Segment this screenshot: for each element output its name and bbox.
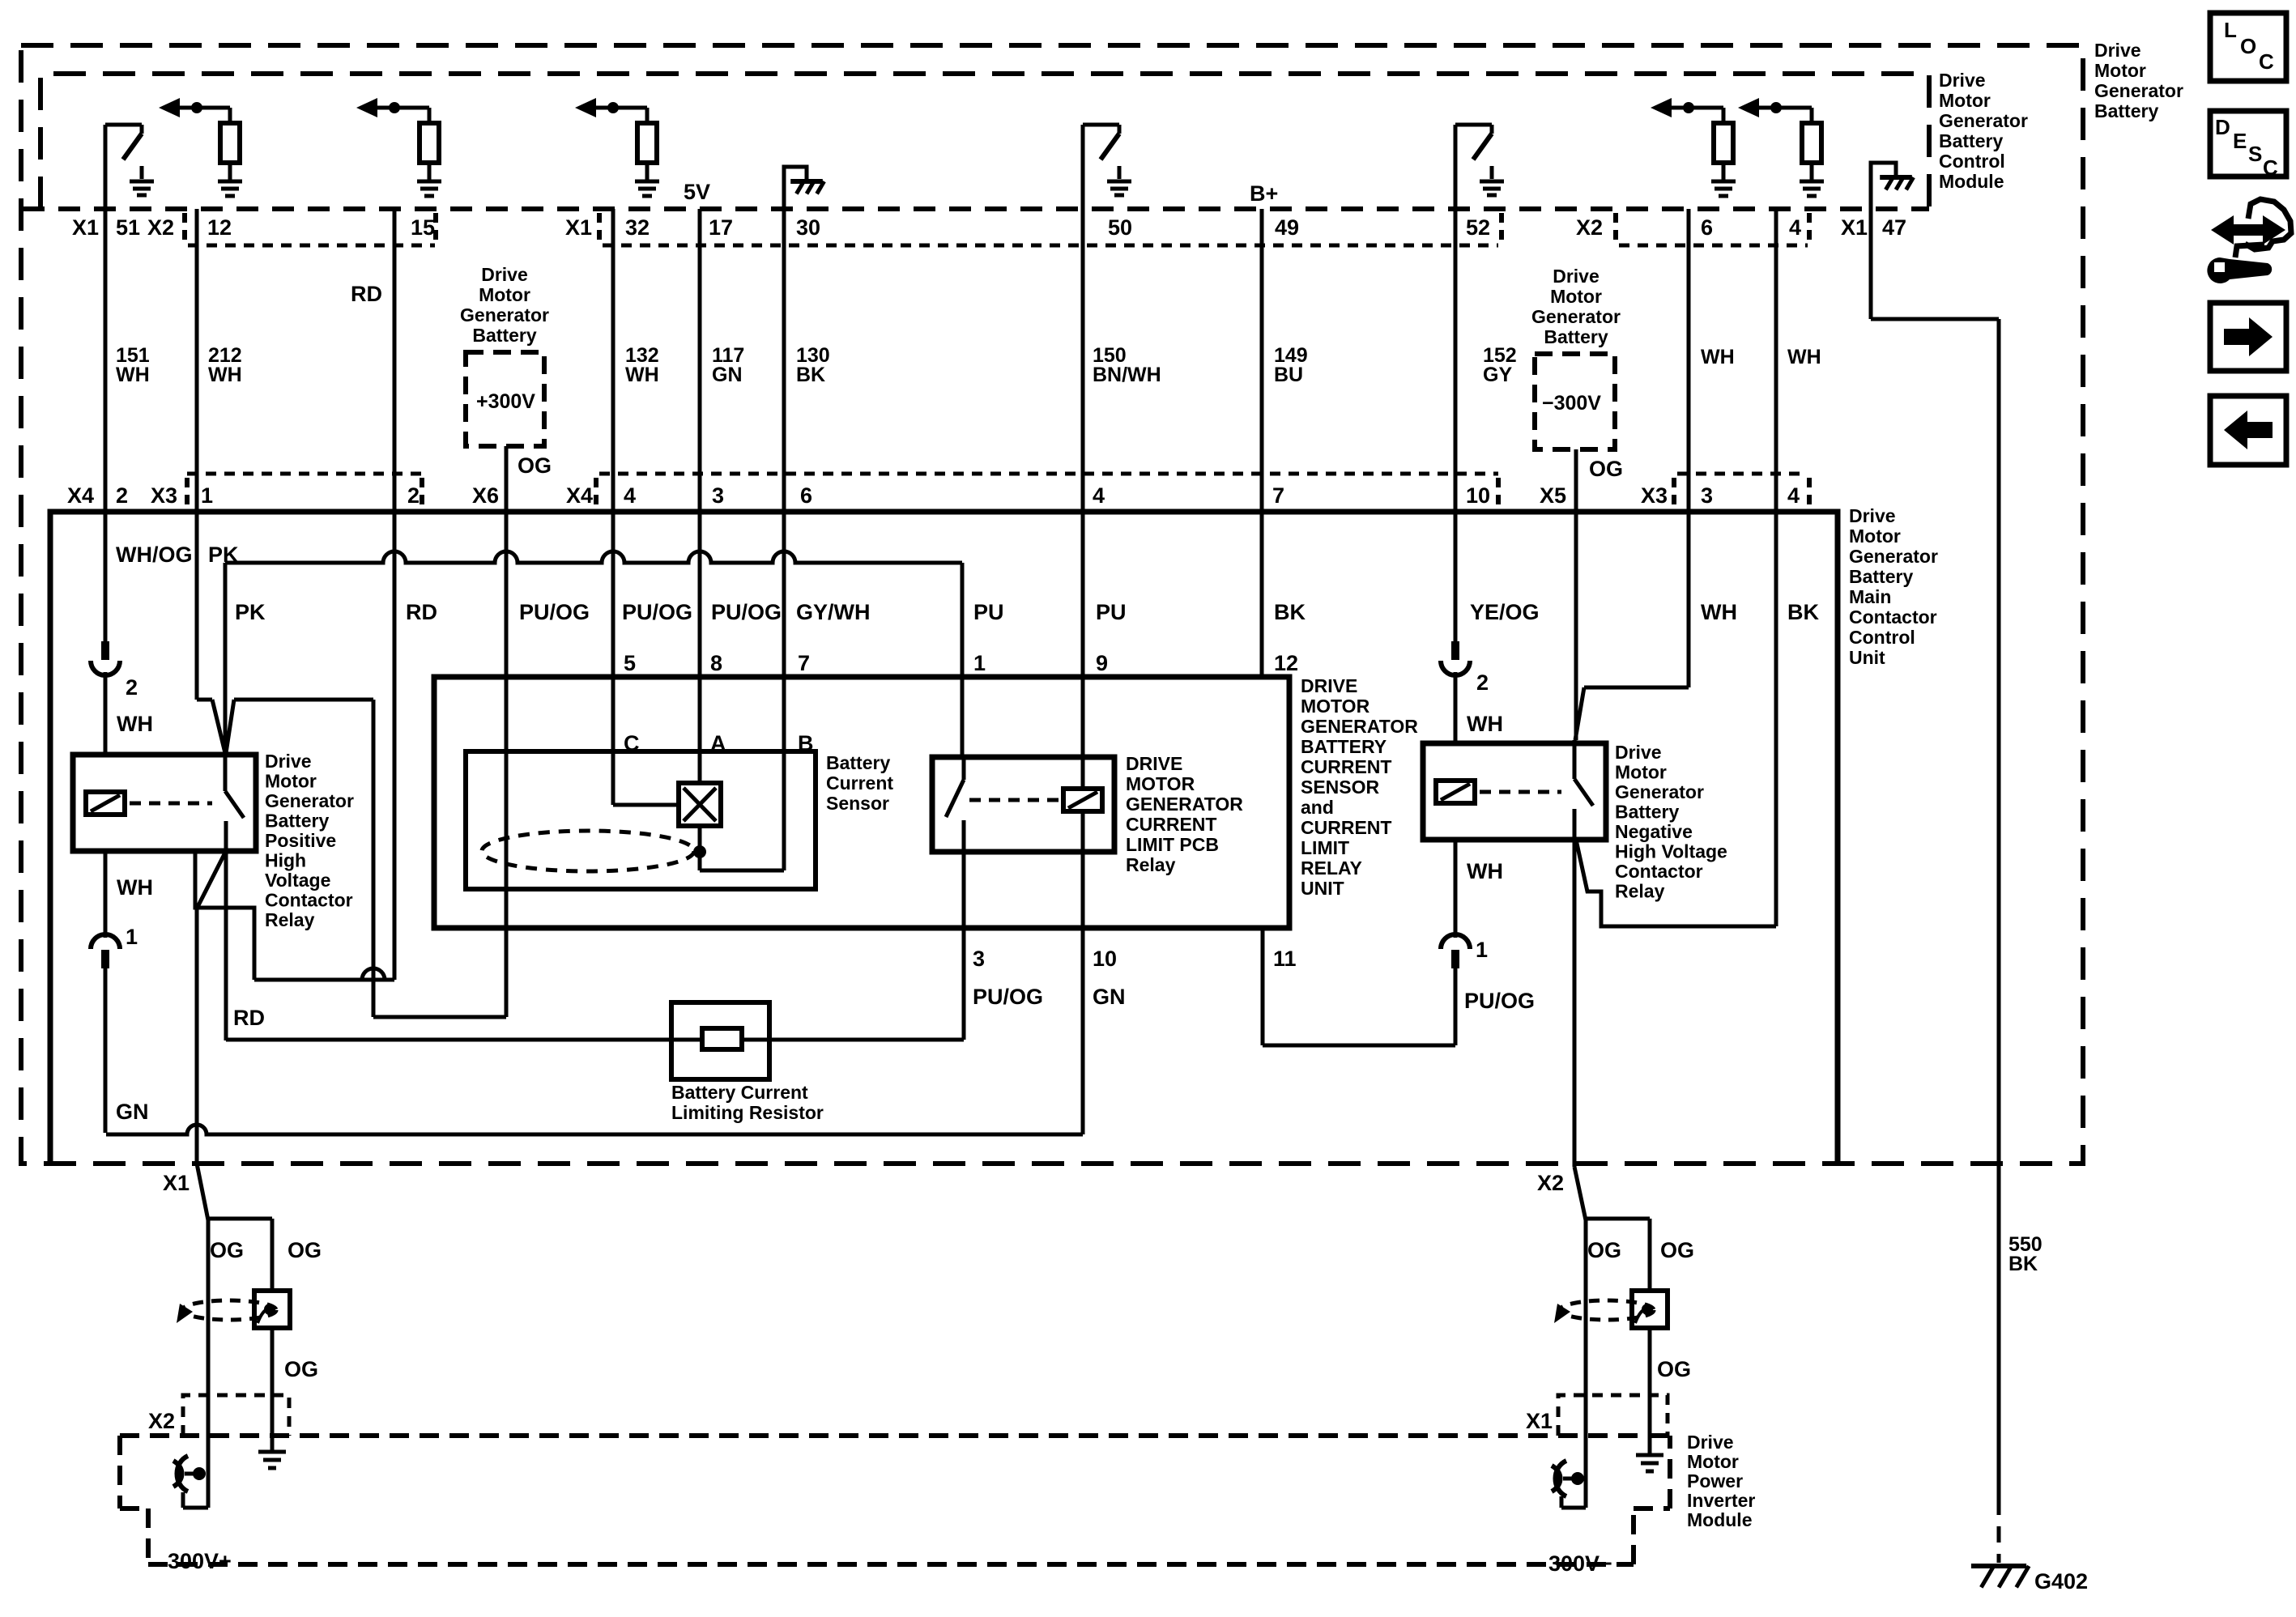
svg-text:X1: X1 bbox=[72, 215, 99, 240]
svg-text:1: 1 bbox=[126, 925, 138, 949]
svg-text:30: 30 bbox=[796, 215, 820, 240]
svg-text:3: 3 bbox=[973, 947, 985, 971]
svg-text:O: O bbox=[2240, 34, 2256, 58]
svg-text:CURRENT: CURRENT bbox=[1126, 814, 1216, 835]
battery +300V wire down through sensor unit bbox=[505, 474, 509, 1017]
chassis ground, pin 30 bbox=[784, 167, 807, 209]
svg-text:Negative: Negative bbox=[1615, 821, 1693, 842]
positive contactor relay box bbox=[73, 755, 256, 851]
icon: hand with double arrow and wrench bbox=[2211, 215, 2285, 245]
svg-text:49: 49 bbox=[1275, 215, 1299, 240]
svg-text:Power: Power bbox=[1687, 1470, 1743, 1491]
svg-text:OG: OG bbox=[284, 1357, 318, 1381]
svg-text:LIMIT PCB: LIMIT PCB bbox=[1126, 834, 1219, 855]
svg-text:Drive: Drive bbox=[1849, 505, 1896, 526]
svg-text:X2: X2 bbox=[1537, 1171, 1564, 1195]
ground G402 bbox=[1971, 1564, 2026, 1568]
svg-text:Control: Control bbox=[1849, 627, 1915, 648]
ground under left OG branch bbox=[258, 1450, 286, 1454]
svg-text:L: L bbox=[2224, 18, 2237, 42]
svg-text:G402: G402 bbox=[2034, 1569, 2088, 1594]
svg-text:10: 10 bbox=[1093, 947, 1117, 971]
svg-text:Inverter: Inverter bbox=[1687, 1490, 1755, 1511]
svg-text:51: 51 bbox=[116, 215, 140, 240]
svg-text:PU/OG: PU/OG bbox=[711, 600, 782, 624]
svg-text:Motor: Motor bbox=[479, 284, 530, 305]
wire X3-3 WH to negative relay switch bbox=[1687, 512, 1691, 687]
wire X4-2 to positive relay coil, WH bbox=[104, 512, 108, 643]
svg-text:−300V: −300V bbox=[1542, 392, 1601, 415]
svg-text:X2: X2 bbox=[148, 1409, 175, 1433]
svg-text:GY: GY bbox=[1483, 364, 1512, 386]
switch to ground, pin 50 bbox=[1081, 125, 1085, 209]
svg-text:Contactor: Contactor bbox=[265, 890, 353, 911]
inline connector 2 on negative coil wire bbox=[1454, 630, 1458, 643]
svg-text:5V: 5V bbox=[684, 180, 710, 204]
svg-text:SENSOR: SENSOR bbox=[1301, 777, 1380, 798]
svg-text:RELAY: RELAY bbox=[1301, 857, 1362, 879]
bottom dotted connector box X1 (right) bbox=[1558, 1395, 1668, 1436]
svg-text:2: 2 bbox=[126, 675, 138, 700]
negative relay output step to BK wire bbox=[1576, 840, 1776, 926]
svg-text:47: 47 bbox=[1882, 215, 1906, 240]
outer dashed box: Drive Motor Generator Battery bbox=[21, 45, 2083, 1164]
svg-text:WH: WH bbox=[116, 364, 150, 386]
svg-text:OG: OG bbox=[1660, 1238, 1694, 1262]
svg-text:Battery: Battery bbox=[265, 811, 329, 832]
PCB relay switch blade bbox=[962, 757, 966, 780]
svg-text:Positive: Positive bbox=[265, 830, 336, 851]
svg-text:X1: X1 bbox=[1841, 215, 1868, 240]
svg-text:D: D bbox=[2215, 115, 2230, 139]
svg-text:Control: Control bbox=[1939, 151, 2005, 172]
svg-text:C: C bbox=[2259, 49, 2274, 74]
svg-text:1: 1 bbox=[973, 651, 986, 675]
long PU wire from relay switch to PCB relay pin 1, with hop-overs bbox=[225, 551, 962, 563]
OG fuse branch right bbox=[1648, 1219, 1652, 1292]
inline connector 1 on negative coil wire bbox=[1454, 933, 1458, 938]
svg-text:Voltage: Voltage bbox=[265, 870, 330, 891]
battery current sensor box bbox=[466, 751, 816, 889]
svg-text:PU/OG: PU/OG bbox=[622, 600, 692, 624]
svg-text:Contactor: Contactor bbox=[1849, 606, 1937, 628]
dashed wire segment to G402 bbox=[1997, 1499, 2001, 1563]
svg-text:17: 17 bbox=[709, 215, 733, 240]
svg-text:Battery: Battery bbox=[1544, 326, 1608, 347]
svg-text:Generator: Generator bbox=[1849, 546, 1938, 567]
svg-text:X1: X1 bbox=[1526, 1409, 1553, 1433]
arrow + pull-up resistor, pin 12 bbox=[159, 98, 180, 117]
svg-text:7: 7 bbox=[1272, 483, 1284, 508]
svg-text:Drive: Drive bbox=[1939, 70, 1986, 91]
connector row 1 dotted box bottoms bbox=[188, 244, 435, 248]
svg-text:RD: RD bbox=[233, 1006, 265, 1030]
negative relay switch blade bbox=[1573, 740, 1577, 779]
svg-text:PU: PU bbox=[973, 600, 1004, 624]
svg-text:X4: X4 bbox=[67, 483, 94, 508]
svg-text:LIMIT: LIMIT bbox=[1301, 837, 1349, 858]
svg-text:CURRENT: CURRENT bbox=[1301, 817, 1391, 838]
svg-text:YE/OG: YE/OG bbox=[1470, 600, 1540, 624]
svg-text:Battery: Battery bbox=[2094, 100, 2158, 121]
sensor element X box bbox=[611, 751, 616, 805]
svg-text:X3: X3 bbox=[151, 483, 177, 508]
OG fuse branch left bbox=[270, 1219, 275, 1291]
svg-text:BK: BK bbox=[1787, 600, 1819, 624]
svg-text:8: 8 bbox=[710, 651, 722, 675]
svg-text:Drive: Drive bbox=[1687, 1432, 1734, 1453]
svg-text:12: 12 bbox=[207, 215, 232, 240]
svg-text:X2: X2 bbox=[147, 215, 174, 240]
wires between connector rows bbox=[104, 209, 108, 512]
svg-text:11: 11 bbox=[1273, 947, 1297, 971]
current sensor + limit relay unit box bbox=[434, 677, 1289, 928]
svg-text:Drive: Drive bbox=[481, 264, 528, 285]
connector row 1 dotted separators bbox=[182, 213, 187, 243]
PCB relay coil with slash bbox=[1081, 757, 1085, 789]
svg-text:OG: OG bbox=[1589, 457, 1623, 481]
svg-text:RD: RD bbox=[406, 600, 437, 624]
svg-text:WH: WH bbox=[117, 712, 153, 736]
svg-text:Drive: Drive bbox=[1615, 742, 1662, 763]
svg-text:OG: OG bbox=[1587, 1238, 1621, 1262]
drive motor power inverter module dashed box bbox=[120, 1433, 1670, 1438]
svg-text:WH: WH bbox=[117, 875, 153, 900]
svg-text:OG: OG bbox=[210, 1238, 244, 1262]
ground under right OG branch bbox=[1636, 1453, 1663, 1457]
svg-text:WH: WH bbox=[1701, 600, 1737, 624]
svg-text:52: 52 bbox=[1466, 215, 1490, 240]
inner dashed box: Drive Motor Generator Battery Control Module bbox=[40, 74, 1929, 209]
icon: LOC box bbox=[2210, 13, 2286, 81]
svg-text:GN: GN bbox=[1093, 985, 1126, 1009]
svg-text:Generator: Generator bbox=[265, 790, 354, 811]
svg-text:Generator: Generator bbox=[460, 304, 549, 326]
relay switch blade bbox=[224, 753, 228, 791]
svg-text:Generator: Generator bbox=[1939, 110, 2028, 131]
positive relay output to X1 and resistor branch bbox=[197, 851, 226, 908]
svg-text:OG: OG bbox=[288, 1238, 322, 1262]
svg-text:Generator: Generator bbox=[1615, 781, 1704, 802]
svg-text:4: 4 bbox=[1093, 483, 1105, 508]
svg-text:PU/OG: PU/OG bbox=[519, 600, 590, 624]
icon: next arrow box bbox=[2210, 303, 2286, 371]
svg-text:X5: X5 bbox=[1540, 483, 1566, 508]
svg-text:10: 10 bbox=[1466, 483, 1490, 508]
negative relay coil with slash bbox=[1436, 781, 1475, 803]
svg-text:4: 4 bbox=[1789, 215, 1801, 240]
wire 10->YE/OG to negative relay coil bbox=[1454, 512, 1458, 640]
wire X3-1 PK down to relay switch bbox=[195, 512, 199, 700]
PCB relay actuation dashed line bbox=[969, 798, 1059, 802]
svg-text:Relay: Relay bbox=[1615, 881, 1665, 902]
X1 output jog and OG branch left bbox=[197, 1164, 208, 1220]
svg-text:BN/WH: BN/WH bbox=[1093, 364, 1161, 386]
svg-text:C: C bbox=[2263, 155, 2278, 180]
svg-text:Unit: Unit bbox=[1849, 647, 1885, 668]
wire pin 47 down bbox=[1869, 209, 1873, 319]
svg-text:GN: GN bbox=[116, 1100, 149, 1124]
svg-text:Generator: Generator bbox=[2094, 80, 2183, 101]
svg-text:Relay: Relay bbox=[265, 909, 315, 930]
svg-text:Motor: Motor bbox=[1615, 762, 1667, 783]
300V- terminal bbox=[1561, 1506, 1586, 1510]
svg-text:Battery: Battery bbox=[472, 325, 536, 346]
arrow + pull-up resistor, pin 4 bbox=[1738, 98, 1759, 117]
svg-text:1: 1 bbox=[1476, 938, 1488, 962]
svg-text:Motor: Motor bbox=[1849, 526, 1901, 547]
300V+ terminal bbox=[183, 1506, 208, 1510]
negative relay coil lower wire bbox=[1454, 840, 1458, 934]
svg-text:Motor: Motor bbox=[1550, 286, 1602, 307]
svg-text:GN: GN bbox=[712, 364, 743, 386]
svg-text:X6: X6 bbox=[472, 483, 499, 508]
svg-text:Battery Current: Battery Current bbox=[671, 1082, 808, 1103]
svg-text:WH: WH bbox=[208, 364, 242, 386]
inline connector 1 on coil wire bbox=[104, 933, 108, 938]
positive relay coil lower wire WH GN bbox=[104, 851, 108, 934]
svg-text:2: 2 bbox=[1476, 670, 1489, 695]
svg-text:WH: WH bbox=[1467, 859, 1503, 883]
arrow + pull-up resistor, pin 32 bbox=[575, 98, 596, 117]
wires X4-4/3/6 down into sensor unit, C A B bbox=[611, 512, 616, 751]
svg-text:E: E bbox=[2233, 129, 2247, 153]
svg-text:Relay: Relay bbox=[1126, 854, 1176, 875]
svg-text:MOTOR: MOTOR bbox=[1301, 696, 1370, 717]
sensor output node bbox=[698, 826, 702, 870]
svg-text:WH: WH bbox=[1787, 346, 1821, 368]
svg-text:Drive: Drive bbox=[2094, 40, 2141, 61]
svg-text:Motor: Motor bbox=[265, 771, 317, 792]
svg-text:Battery: Battery bbox=[1615, 802, 1679, 823]
svg-text:OG: OG bbox=[1657, 1357, 1691, 1381]
svg-text:UNIT: UNIT bbox=[1301, 878, 1344, 899]
svg-text:3: 3 bbox=[1701, 483, 1713, 508]
svg-text:Limiting Resistor: Limiting Resistor bbox=[671, 1102, 824, 1123]
negative relay actuation dashed line bbox=[1480, 790, 1561, 794]
relay coil with slash bbox=[86, 792, 125, 815]
svg-text:15: 15 bbox=[411, 215, 435, 240]
switch to ground, pin 51 bbox=[104, 125, 108, 209]
svg-text:X1: X1 bbox=[565, 215, 592, 240]
svg-text:1: 1 bbox=[201, 483, 213, 508]
svg-text:WH: WH bbox=[1467, 712, 1503, 736]
svg-text:50: 50 bbox=[1108, 215, 1132, 240]
negative contactor relay box bbox=[1423, 743, 1606, 840]
connector row 2 dotted box tops bbox=[187, 472, 422, 476]
bottom dotted connector box X2 (left) bbox=[183, 1395, 289, 1436]
battery current limiting resistor bbox=[671, 1002, 769, 1079]
svg-text:2: 2 bbox=[407, 483, 420, 508]
svg-text:2: 2 bbox=[116, 483, 128, 508]
svg-text:DRIVE: DRIVE bbox=[1126, 753, 1182, 774]
svg-text:Sensor: Sensor bbox=[826, 793, 889, 814]
svg-text:OG: OG bbox=[518, 453, 552, 478]
svg-text:BATTERY: BATTERY bbox=[1301, 736, 1387, 757]
sensor coil dashed ellipse bbox=[482, 831, 694, 871]
svg-text:PU/OG: PU/OG bbox=[1464, 989, 1535, 1013]
arrow + pull-up resistor, pin 15 bbox=[356, 98, 377, 117]
svg-text:S: S bbox=[2248, 142, 2262, 166]
svg-text:BU: BU bbox=[1274, 364, 1303, 386]
relay actuation dashed line bbox=[130, 802, 212, 806]
svg-text:Motor: Motor bbox=[2094, 60, 2146, 81]
svg-text:12: 12 bbox=[1274, 651, 1298, 675]
svg-text:Contactor: Contactor bbox=[1615, 861, 1703, 882]
svg-text:RD: RD bbox=[351, 282, 382, 306]
switch to ground, pin 52 bbox=[1454, 125, 1458, 209]
svg-text:3: 3 bbox=[712, 483, 724, 508]
RD wire from X3-2 down and into relay bbox=[393, 512, 397, 980]
svg-text:Main: Main bbox=[1849, 586, 1891, 607]
X2 output jog and OG branch right bbox=[1574, 1167, 1586, 1220]
wire X5 -300V down to negative relay switch bbox=[1574, 474, 1578, 740]
resistor feed wire bbox=[226, 1038, 702, 1042]
svg-text:+300V: +300V bbox=[476, 390, 535, 413]
svg-text:7: 7 bbox=[798, 651, 810, 675]
svg-text:32: 32 bbox=[625, 215, 650, 240]
svg-text:DRIVE: DRIVE bbox=[1301, 675, 1357, 696]
svg-text:9: 9 bbox=[1096, 651, 1108, 675]
svg-text:BK: BK bbox=[2008, 1253, 2038, 1275]
svg-text:X2: X2 bbox=[1576, 215, 1603, 240]
svg-text:6: 6 bbox=[800, 483, 812, 508]
svg-text:Battery: Battery bbox=[826, 752, 890, 773]
svg-text:4: 4 bbox=[624, 483, 636, 508]
svg-text:BK: BK bbox=[1274, 600, 1306, 624]
arrow + pull-up resistor, pin 6 bbox=[1651, 98, 1672, 117]
svg-text:Module: Module bbox=[1939, 171, 2004, 192]
svg-text:PK: PK bbox=[235, 600, 266, 624]
icon: DESC box bbox=[2210, 111, 2286, 177]
svg-text:Drive: Drive bbox=[265, 751, 312, 772]
wire X3-4 BK down to negative relay output bbox=[1774, 512, 1778, 926]
wire from relay switch node to +300V feed (right vertical) bbox=[234, 698, 373, 702]
svg-text:WH: WH bbox=[1701, 346, 1735, 368]
svg-text:X1: X1 bbox=[163, 1171, 190, 1195]
svg-text:GY/WH: GY/WH bbox=[796, 600, 871, 624]
svg-text:300V−: 300V− bbox=[1548, 1551, 1612, 1576]
svg-text:X4: X4 bbox=[566, 483, 593, 508]
svg-text:and: and bbox=[1301, 797, 1334, 818]
svg-text:PU/OG: PU/OG bbox=[973, 985, 1043, 1009]
svg-text:4: 4 bbox=[1787, 483, 1800, 508]
svg-text:PU: PU bbox=[1096, 600, 1127, 624]
unit pin 11 wire to negative relay coil bbox=[1261, 928, 1265, 1045]
svg-text:MOTOR: MOTOR bbox=[1126, 773, 1195, 794]
svg-text:5: 5 bbox=[624, 651, 636, 675]
PCB relay pin 3 wire bbox=[962, 852, 966, 1040]
svg-text:6: 6 bbox=[1701, 215, 1713, 240]
main contactor control unit solid box bbox=[50, 512, 1838, 1164]
svg-text:Motor: Motor bbox=[1939, 90, 1991, 111]
svg-text:Battery: Battery bbox=[1939, 130, 2003, 151]
connector row 1 dashed line bbox=[23, 206, 1929, 211]
svg-text:300V+: 300V+ bbox=[168, 1549, 232, 1573]
svg-text:CURRENT: CURRENT bbox=[1301, 756, 1391, 777]
wire 4->PU pin9 down to PCB coil bbox=[1081, 512, 1085, 757]
chassis ground, pin 47 bbox=[1871, 163, 1896, 209]
svg-text:Module: Module bbox=[1687, 1509, 1753, 1530]
inline connector 2 on coil wire bbox=[104, 630, 108, 643]
svg-text:Drive: Drive bbox=[1553, 266, 1600, 287]
svg-text:B+: B+ bbox=[1250, 181, 1278, 206]
svg-text:GENERATOR: GENERATOR bbox=[1301, 716, 1418, 737]
svg-text:WH: WH bbox=[625, 364, 659, 386]
svg-text:WH/OG: WH/OG bbox=[116, 543, 193, 567]
svg-text:Current: Current bbox=[826, 772, 893, 794]
connector row 2 dotted separators bbox=[185, 478, 190, 508]
icon: previous arrow box bbox=[2210, 396, 2286, 465]
svg-text:GENERATOR: GENERATOR bbox=[1126, 794, 1243, 815]
svg-text:X3: X3 bbox=[1641, 483, 1668, 508]
wire pin 47 to G402, 550 BK bbox=[1871, 317, 1999, 321]
negative relay output wire to X2 bbox=[1573, 840, 1577, 1167]
svg-text:BK: BK bbox=[796, 364, 825, 386]
svg-text:Motor: Motor bbox=[1687, 1451, 1739, 1472]
svg-text:High Voltage: High Voltage bbox=[1615, 841, 1727, 862]
current limit PCB relay box bbox=[932, 757, 1114, 852]
GN wire to PCB relay pin 10 bbox=[106, 1125, 1083, 1134]
wire 7->BK pin12 down to unit box bbox=[1260, 512, 1264, 677]
svg-text:Battery: Battery bbox=[1849, 566, 1913, 587]
svg-text:Generator: Generator bbox=[1531, 306, 1621, 327]
svg-text:High: High bbox=[265, 850, 306, 871]
